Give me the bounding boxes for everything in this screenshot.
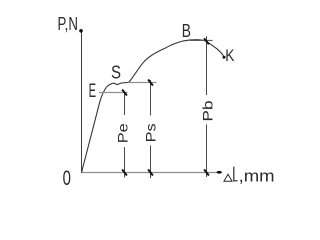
dimension line Pe (124, 93, 126, 116)
tick Ps top (148, 80, 153, 86)
svg-text:B: B (182, 20, 191, 41)
svg-text:,mm: ,mm (239, 168, 275, 186)
svg-text:Ps: Ps (142, 123, 158, 142)
curve (82, 40, 224, 173)
svg-text:S: S (111, 62, 121, 82)
axis dL horizontal (81, 172, 219, 174)
extension line from B (190, 39, 213, 41)
dimension line Ps (150, 80, 152, 116)
extension line from S plateau (128, 82, 157, 84)
tick Pb bottom (204, 170, 209, 176)
axis label L (234, 167, 238, 181)
extension line from E (99, 92, 128, 94)
svg-text:K: K (225, 47, 234, 65)
svg-text:0: 0 (63, 167, 71, 190)
axis P vertical (81, 31, 83, 173)
point K dot (223, 56, 226, 59)
tick Pe top (122, 90, 127, 96)
axis dL arrow dot (217, 171, 222, 174)
tick Pb top (204, 38, 209, 44)
svg-text:E: E (89, 81, 96, 102)
tick Pe bottom (122, 170, 127, 176)
tick Ps bottom (148, 170, 153, 176)
axis label delta (224, 174, 232, 181)
svg-text:P,N: P,N (58, 14, 78, 34)
dimension line Pb (206, 36, 208, 95)
svg-text:Pb: Pb (199, 100, 215, 121)
svg-text:Pe: Pe (114, 123, 130, 143)
axis P arrow dot (79, 29, 83, 33)
